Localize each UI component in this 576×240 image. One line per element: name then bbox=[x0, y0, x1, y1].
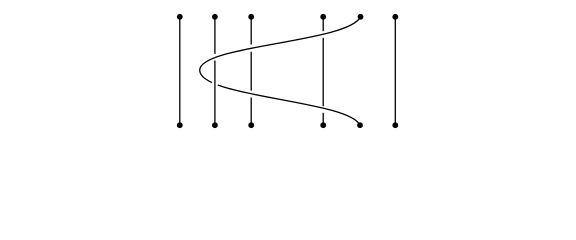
top endpoint dot 1 bbox=[177, 14, 183, 20]
strand 1 wire bbox=[179, 17, 181, 125]
strand 2 wire lower bbox=[214, 61, 216, 126]
under-crossing gap of band at strand 2 bbox=[212, 80, 218, 86]
bottom endpoint dot 5 bbox=[357, 122, 363, 128]
bottom endpoint dot 4 bbox=[320, 122, 326, 128]
top endpoint dot 3 bbox=[248, 14, 254, 20]
strand 2 wire upper bbox=[214, 17, 216, 54]
strand 3 wire lower bbox=[250, 98, 252, 126]
strand 3 wire middle bbox=[250, 52, 252, 91]
top endpoint dot 4 bbox=[320, 14, 326, 20]
strand 6 wire bbox=[394, 17, 396, 125]
top endpoint dot 2 bbox=[212, 14, 218, 20]
top endpoint dot 6 bbox=[392, 14, 398, 20]
strand 3 wire upper bbox=[250, 17, 252, 45]
strand 4 wire middle bbox=[322, 38, 324, 106]
bottom endpoint dot 6 bbox=[392, 122, 398, 128]
strand 4 wire upper bbox=[322, 17, 324, 31]
top endpoint dot 5 bbox=[358, 14, 364, 20]
braid diagram: six strands, strand 5 band hooks around strand 2 bbox=[0, 0, 576, 144]
bottom endpoint dot 2 bbox=[212, 122, 218, 128]
bottom endpoint dot 3 bbox=[248, 122, 254, 128]
strand 5 band curve bbox=[200, 17, 361, 125]
bottom endpoint dot 1 bbox=[177, 122, 183, 128]
strand 4 wire lower bbox=[322, 113, 324, 125]
